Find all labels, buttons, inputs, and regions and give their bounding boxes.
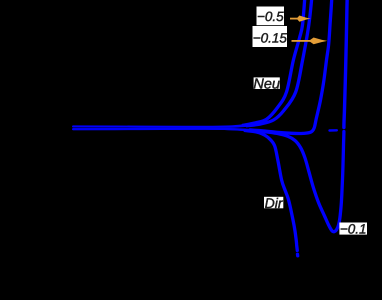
- label box Neu: [253, 77, 280, 93]
- eigenvalue curve: V-shaped Dir branch for -0.1 (blue): [73, 129, 344, 232]
- eigenvalue curve: Neu branch 2 (blue): [73, 0, 312, 127]
- label box -0.1: [339, 221, 367, 236]
- svg-text:Dir: Dir: [265, 195, 284, 211]
- eigenvalue curve: Neu branch 3 (blue): [73, 0, 332, 134]
- orange arrow pointing at -0.5 curve: [290, 16, 311, 22]
- eigenvalue curve: Neu branch 1 (blue): [73, 0, 305, 127]
- svg-text:−0.15: −0.15: [253, 30, 288, 45]
- label box -0.15: [253, 26, 288, 47]
- svg-text:−0.5: −0.5: [257, 9, 284, 24]
- orange arrow pointing at -0.15 curve: [292, 38, 328, 45]
- svg-text:−0.1: −0.1: [340, 221, 367, 236]
- label box -0.5: [257, 7, 285, 26]
- label box Dir: [264, 195, 284, 211]
- eigenvalue curve: Dir branch with fading tail (blue): [73, 129, 298, 256]
- eigenvalue curve: near-vertical Neu branch 4 (blue): [344, 0, 347, 128]
- short dash where Neu branch 4 hooks left (blue): [330, 129, 337, 132]
- svg-text:Neu: Neu: [253, 77, 280, 93]
